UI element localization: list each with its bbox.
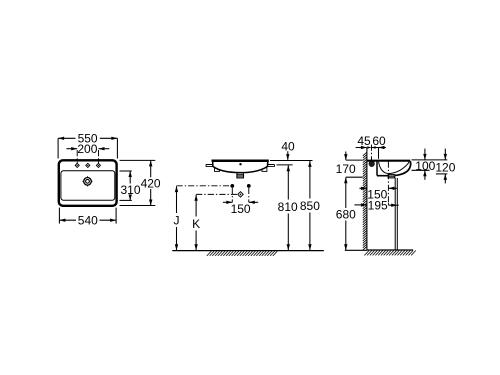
- dimension 60: value label: [372, 134, 386, 148]
- fixing holes center-line (upper, to J): [177, 185, 231, 187]
- side view: wall hatching: [363, 152, 367, 250]
- dimension 100: value label: [415, 159, 435, 173]
- fixing bolt hole right (dot): [247, 184, 251, 188]
- tap hole 3 (plan): [96, 163, 100, 167]
- dimension 100: top arrow: [423, 149, 426, 160]
- dimension 150 side: value label: [367, 188, 387, 202]
- dimension 850: value label: [300, 199, 320, 213]
- side view: fixing boss at wall: [369, 160, 375, 167]
- dimension 170: bottom arrow: [344, 177, 347, 183]
- dimension K: vertical line with arrows: [194, 195, 197, 251]
- dimension 100/120: rim extension line: [412, 159, 448, 161]
- side view: floor extension line: [345, 249, 367, 251]
- svg-text:J: J: [174, 213, 180, 227]
- dimension 420: dimension line with arrows: [149, 160, 152, 205]
- svg-text:680: 680: [336, 207, 356, 221]
- dimension K: label: [192, 217, 200, 231]
- fixing hole axis center-line: [371, 145, 373, 168]
- front view: tap hole dot on deck: [239, 163, 241, 165]
- front view: drain outlet stub: [237, 173, 244, 178]
- drain / waste symbol (plan): [82, 176, 92, 186]
- dimension 150 front: arrows outside: [223, 201, 258, 204]
- drain axis corner with arrow: [388, 203, 398, 207]
- dimension 170: top arrow: [344, 152, 347, 161]
- side view: drain pipe: [395, 178, 397, 250]
- dimension 45/60: dimension line and arrows: [356, 146, 386, 149]
- dimension 550: extension lines: [58, 138, 117, 158]
- front view: side mounting tab right: [268, 165, 275, 167]
- front view: rim level extension line: [270, 160, 313, 162]
- svg-text:170: 170: [336, 162, 356, 176]
- dimension 550: dimension line with arrows: [58, 137, 117, 140]
- dimension 100: bottom extension line: [412, 169, 430, 171]
- dimension 540: dimension line with arrows: [59, 219, 116, 222]
- dimension 680: value label: [336, 207, 356, 221]
- side view: floor hatching: [364, 251, 415, 256]
- dimension 120: bottom extension line: [436, 173, 447, 175]
- dimension 120: value label: [435, 161, 455, 175]
- dimension 420: extension lines: [120, 160, 156, 205]
- side view: outer right edge and bottom curve: [377, 161, 411, 176]
- side view: basin back wall: [376, 162, 378, 176]
- front view: floor line: [172, 250, 323, 252]
- dimension 120: bottom arrow: [444, 174, 447, 184]
- svg-text:850: 850: [300, 199, 320, 213]
- svg-text:K: K: [192, 217, 200, 231]
- fixing bolt hole left (dot): [230, 184, 234, 188]
- svg-text:420: 420: [141, 177, 161, 191]
- drain center-line (lower, to K): [196, 193, 237, 195]
- dimension 150 front: extension dashes: [232, 188, 249, 203]
- dimension 200: value label: [77, 142, 97, 156]
- dimension J: label: [174, 213, 180, 227]
- svg-text:810: 810: [278, 200, 298, 214]
- side view: drain stub: [388, 175, 395, 178]
- tap hole 2 (plan): [86, 163, 90, 167]
- front view: fixing lug bracket left: [215, 167, 220, 172]
- side view: basin underside extension line: [346, 176, 363, 178]
- dimension 680: line with arrow: [344, 184, 347, 251]
- dimension 200: extension center-lines to outer tap holes: [77, 150, 98, 163]
- dimension 100: bottom arrow: [423, 170, 426, 180]
- drain reference diamond: [238, 192, 243, 197]
- svg-text:45: 45: [357, 134, 371, 148]
- side view: wall face line: [366, 148, 368, 251]
- dimension 60: right extension line: [378, 148, 380, 159]
- dimension 310: dimension line with arrows: [129, 171, 132, 200]
- basin top view: outer rim outline: [59, 160, 117, 206]
- svg-text:40: 40: [281, 139, 295, 153]
- svg-text:310: 310: [120, 183, 140, 197]
- basin top view: inner bowl outline: [61, 171, 115, 201]
- dimension 150 front: value label: [231, 202, 251, 216]
- svg-text:200: 200: [77, 142, 97, 156]
- front view: bowl underside curve: [213, 161, 268, 172]
- front view: floor hatching: [207, 251, 278, 256]
- dimension 120: top arrow: [444, 149, 447, 160]
- dimension 150 side: wall arrow: [359, 187, 367, 190]
- dimension 540: value label: [78, 214, 98, 228]
- dimension 850: line with arrows: [308, 161, 311, 250]
- front view: fixing lug bracket right: [262, 167, 267, 172]
- svg-text:100: 100: [415, 159, 435, 173]
- drain axis center-line (side): [387, 162, 389, 204]
- dimension 40: arrow and label: [281, 139, 295, 160]
- dimension 170: value label: [336, 162, 356, 176]
- svg-text:120: 120: [435, 161, 455, 175]
- front view: tab level extension line: [277, 164, 293, 166]
- dimension 540: extension lines: [59, 208, 116, 224]
- front view: side mounting tab left: [206, 165, 213, 167]
- dimension 195: wall arrow: [354, 203, 367, 206]
- dimension 150 side: axis arrow: [388, 187, 397, 190]
- side view: bowl interior curve: [379, 162, 410, 174]
- dimension 45: value label: [357, 134, 371, 148]
- dimension 810: value label: [278, 200, 298, 214]
- dimension J: vertical line with arrows: [175, 186, 178, 250]
- dimension 195: value label: [368, 199, 388, 213]
- tap hole 1 (plan): [75, 163, 79, 167]
- dimension 310: extension lines: [120, 171, 132, 200]
- svg-text:60: 60: [372, 134, 386, 148]
- side view: basin rim top edge (thick): [367, 160, 410, 162]
- dimension 550: value label: [78, 132, 98, 146]
- dimension 810: line with arrows: [287, 165, 290, 250]
- front view: rim top edge (thick): [212, 160, 269, 162]
- svg-text:150: 150: [231, 202, 251, 216]
- dimension 420: value label: [140, 177, 161, 191]
- dimension 200: arrows outside: [66, 147, 109, 150]
- side view: rim extension line to dim: [346, 159, 363, 161]
- svg-text:540: 540: [78, 214, 98, 228]
- svg-text:195: 195: [368, 199, 388, 213]
- side view: floor line: [367, 249, 413, 251]
- dimension 310: value label: [120, 183, 141, 197]
